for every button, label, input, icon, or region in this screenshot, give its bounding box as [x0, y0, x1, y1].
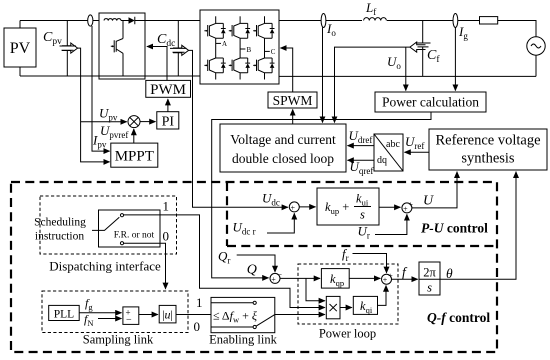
integrator box 2pi/s [419, 262, 440, 295]
svg-text:kqp: kqp [330, 272, 344, 288]
transistor (IGBT) inside boost [111, 21, 123, 77]
wire: U_dc r into summing node [267, 213, 294, 233]
AC grid source [527, 37, 545, 55]
wire: I_g sense line down to power calculation [454, 28, 456, 91]
svg-text:|u|: |u| [162, 308, 173, 322]
wire: PWM gate drive to boost [147, 47, 167, 81]
svg-text:Scheduling: Scheduling [34, 217, 86, 229]
svg-text:F.R. or not: F.R. or not [114, 230, 155, 240]
node A phase tap [216, 40, 227, 48]
inverter box [200, 10, 279, 84]
svg-text:Uref: Uref [405, 134, 424, 151]
wire: main DC top rail [20, 20, 200, 22]
wire: AC bottom rail [279, 55, 536, 76]
svg-text:B: B [247, 46, 252, 54]
node C phase tap [265, 48, 276, 56]
current sensor I_pv (ellipse) [88, 15, 93, 26]
svg-text:Voltage and current: Voltage and current [230, 132, 336, 147]
svg-text:fg: fg [85, 296, 93, 312]
svg-text:kup +: kup + [325, 200, 349, 216]
sense arrow on C_pv (U_pv tap) [62, 43, 78, 53]
svg-text:double closed loop: double closed loop [232, 151, 334, 166]
transistor inverter leg C bottom [253, 38, 274, 79]
wire: summing node to PI controller box [299, 206, 315, 208]
svg-text:fN: fN [84, 312, 93, 328]
wire: U_dc sense line down to P-U loop summing node [189, 50, 288, 207]
svg-text:+: + [291, 203, 296, 212]
wire: Q_r into Q summing node [237, 255, 275, 272]
node: f summing junction [382, 271, 394, 284]
svg-text:Upvref: Upvref [100, 123, 128, 140]
wire: abs box to enabling link [176, 314, 211, 316]
outer dashed control box [11, 182, 497, 352]
svg-text:fr: fr [342, 246, 349, 263]
wire: U_r into U summing node [375, 214, 407, 234]
wire: f to 2pi/s block [392, 265, 418, 280]
svg-text:kqi: kqi [360, 299, 373, 315]
wire: k_qi up to f summing node [378, 286, 387, 306]
svg-text:U: U [423, 194, 434, 209]
resistor (grid impedance) [480, 17, 498, 24]
transistor inverter leg A bottom [204, 38, 225, 79]
wire: closed loop box to SPWM [292, 110, 294, 125]
wire: F.R. output 1 to multiplier [124, 215, 325, 308]
capacitor C_pv [43, 21, 76, 77]
svg-text:s: s [360, 208, 365, 222]
svg-text:SPWM: SPWM [273, 93, 313, 108]
svg-text:instruction: instruction [35, 231, 84, 243]
k_qi box [353, 296, 377, 315]
svg-text:s: s [427, 281, 432, 295]
svg-text:Reference voltage: Reference voltage [435, 133, 540, 149]
svg-text:0: 0 [194, 319, 201, 334]
sense arrow on C_f (U_o tap, points left) [410, 42, 426, 52]
Power calculation box [375, 92, 486, 112]
wire: U_dref from abc/dq to closed loop [348, 128, 374, 146]
svg-text:dq: dq [377, 155, 387, 166]
svg-text:PV: PV [10, 40, 31, 57]
k_qp box [321, 269, 349, 289]
PWM box [146, 80, 191, 98]
node B phase tap [240, 46, 251, 54]
svg-text:C: C [271, 48, 276, 56]
svg-text:Udc: Udc [262, 191, 280, 208]
current sensor I_g (ellipse) [453, 14, 468, 42]
svg-text:Io: Io [326, 21, 336, 38]
wire: comparator to abs box [139, 314, 158, 316]
wire: multiplier to k_qi [340, 307, 352, 309]
P-U control dashed partition (horizontal) [227, 245, 497, 247]
svg-text:Lf: Lf [365, 0, 376, 17]
svg-text:+: + [403, 204, 408, 213]
dispatching interface dashed box [40, 196, 177, 254]
wire: U_pv into comparison node [81, 106, 127, 123]
wire: branch to multiplier input 1 [306, 278, 325, 300]
svg-text:abc: abc [386, 139, 400, 150]
wire: enabling link to multiplier [275, 314, 325, 316]
wire: comparison node to PI [140, 121, 155, 123]
svg-text:A: A [222, 40, 227, 48]
enabling link box [211, 297, 275, 332]
label Scheduling instruction [34, 217, 86, 243]
current sensor I_o (ellipse) [321, 14, 336, 39]
wire: PI to PWM [167, 99, 169, 112]
sampling link dashed box [42, 291, 188, 333]
wire: theta feedback up to synthesis box [440, 172, 516, 279]
wire: F.R. output 0 down to sampling link [124, 243, 166, 289]
svg-text:kui: kui [356, 192, 369, 208]
svg-text:0: 0 [163, 229, 170, 244]
wire: Q error to k_qp [280, 277, 320, 279]
PI box [157, 112, 179, 130]
svg-text:PLL: PLL [54, 309, 74, 321]
svg-text:synthesis: synthesis [461, 151, 515, 167]
svg-text:MPPT: MPPT [115, 149, 154, 165]
MPPT box [111, 143, 158, 167]
abc/dq transform box [374, 134, 403, 171]
boost converter box [99, 13, 145, 79]
svg-text:PI: PI [162, 115, 175, 130]
wire: U_qref from abc/dq to closed loop [348, 159, 374, 176]
svg-text:≤ Δfw + ξ: ≤ Δfw + ξ [213, 309, 258, 325]
node: U_pv comparison (circle-X) [128, 116, 140, 128]
comparator box (+/-) [123, 307, 139, 326]
svg-text:Upv: Upv [99, 106, 118, 123]
svg-text:PWM: PWM [150, 82, 186, 98]
wire: I_o sense line down to closed loop box [322, 28, 324, 123]
svg-text:Uo: Uo [387, 54, 401, 71]
switch box F.R. or not [92, 210, 160, 247]
wire: U output up to synthesis box [412, 172, 457, 209]
transistor inverter leg B top [229, 16, 250, 38]
node: U summing junction [402, 200, 414, 213]
wire: Q from power calculation down to Q-f loop [212, 112, 431, 278]
capacitor C_dc [157, 21, 187, 77]
wire: U_pvref from MPPT up into node [100, 123, 134, 143]
svg-text:1: 1 [196, 295, 203, 310]
svg-text:2π: 2π [423, 266, 436, 280]
wire: U_ref from synthesis to abc/dq [405, 134, 429, 152]
svg-text:−: − [126, 315, 132, 326]
Reference voltage synthesis box [429, 129, 547, 170]
svg-text:Udref: Udref [349, 128, 373, 145]
Voltage and current double closed loop box [220, 124, 346, 172]
node: Q summing junction [270, 270, 282, 284]
power loop dashed box [298, 264, 398, 324]
PV source box [4, 21, 36, 77]
node: U_dc summing junction [289, 202, 299, 212]
svg-text:Power loop: Power loop [319, 327, 376, 341]
inductor L_f [364, 0, 387, 21]
svg-text:Qr: Qr [218, 249, 230, 266]
wire: f_N to comparator [98, 318, 121, 320]
transistor inverter leg B bottom [229, 38, 250, 79]
svg-text:Enabling link: Enabling link [209, 333, 277, 347]
svg-text:f: f [402, 265, 408, 280]
wire: k_qp to f summing node [349, 277, 380, 279]
svg-text:+: + [383, 276, 388, 285]
capacitor C_f [415, 21, 440, 77]
wire: AC top rail [279, 21, 536, 38]
wire: I_pv sense line down to MPPT [92, 26, 110, 151]
svg-text:Uqref: Uqref [350, 159, 374, 176]
wire: controller to second summing node [379, 206, 400, 208]
wire: U_o sense line to closed loop box [335, 47, 410, 122]
SPWM box [268, 92, 317, 108]
P-U control dashed partition (vertical) [226, 182, 228, 246]
multiplier box [326, 296, 340, 318]
inductor inside boost [104, 19, 121, 21]
svg-text:Udc r: Udc r [233, 220, 256, 237]
svg-text:1: 1 [163, 199, 170, 214]
diode inside boost [121, 17, 145, 24]
svg-text:Q: Q [247, 263, 257, 278]
wire: SPWM gate drive to inverter [281, 48, 293, 92]
wire: U_o branch down to power calculation [387, 47, 406, 90]
svg-text:Power calculation: Power calculation [382, 95, 479, 110]
svg-text:Dispatching interface: Dispatching interface [49, 259, 161, 274]
transistor inverter leg C top [253, 16, 274, 38]
svg-text:Cf: Cf [427, 48, 440, 65]
svg-text:Cpv: Cpv [43, 30, 62, 47]
PI controller box k_up + k_ui/s [317, 188, 379, 225]
PLL box [49, 305, 79, 320]
sense arrow on C_dc (U_dc tap) [173, 45, 189, 55]
svg-text:+: + [271, 275, 276, 284]
transistor inverter leg A top [204, 16, 225, 38]
wire: f_g from PLL to comparator [79, 312, 121, 314]
svg-text:P-U control: P-U control [421, 221, 488, 236]
svg-text:Q-f control: Q-f control [427, 310, 490, 325]
abs box |u| [159, 305, 176, 323]
wire: main DC bottom rail [20, 75, 200, 77]
svg-text:Ur: Ur [358, 224, 370, 241]
svg-text:Sampling link: Sampling link [83, 333, 154, 347]
svg-text:Ig: Ig [458, 24, 468, 41]
wire: U_pv sense line down to MPPT [78, 48, 110, 162]
wire: f_r into f summing node [353, 254, 387, 273]
